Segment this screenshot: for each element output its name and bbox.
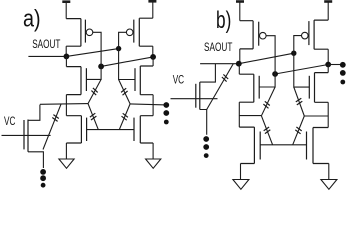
nmos M1b channel + leads <box>239 74 254 102</box>
ground left (a) <box>59 159 74 168</box>
antifuse diagonal VC wire to row line (a) <box>43 104 61 149</box>
VDD symbol left (a) <box>62 0 70 3</box>
break marks on V2 upper diagonal <box>121 88 128 95</box>
pmos P1b gate bar <box>258 22 260 46</box>
wire VDD1b to PMOS P1b <box>239 2 241 21</box>
pmos P2b gate bar <box>308 21 310 45</box>
row line (b) <box>239 115 261 117</box>
svg-text:VC: VC <box>4 114 16 128</box>
nmos M3a gate bar <box>86 118 88 141</box>
break marks on VC antifuse (b) <box>222 74 228 81</box>
break marks on V1 lower diagonal <box>90 113 97 120</box>
node dot3 (P1b gate) <box>272 71 278 77</box>
access nmos Mvb source lead down <box>200 110 207 135</box>
access nmos Mvb gate bar <box>195 84 197 108</box>
antifuse diagonal V2 to M2a gate corner <box>119 80 131 104</box>
node dot3 (P1a gate) <box>98 64 104 70</box>
ground right (b) <box>321 180 337 190</box>
nmos M3b gate bar <box>259 132 261 160</box>
VC wire (b) <box>171 98 218 100</box>
wire M1b gate to column <box>259 72 275 87</box>
wire P2a gate to cross node <box>119 32 127 46</box>
wire right rail to ground (b) <box>328 164 330 180</box>
antifuse diagonal V1b to row2 gate line (b) <box>261 116 272 145</box>
access nmos Mva drain lead up to row line <box>28 105 40 121</box>
node B dot (b) <box>325 62 331 68</box>
nmos M3b (row2 left) channel + leads <box>239 127 254 163</box>
access nmos Mvb drain lead up to SAOUT wire <box>200 64 216 82</box>
row-continuation dots right (a) <box>163 102 169 108</box>
nmos M2b channel + leads <box>315 73 329 103</box>
row line (a) <box>40 103 88 106</box>
wire M1a gate to column <box>86 64 101 79</box>
break marks on V1b upper diagonal <box>263 101 269 108</box>
access nmos Mva source lead down <box>28 152 43 168</box>
wire right rail row1-row2 (a) <box>152 95 154 116</box>
wire P1b drain down to node A (b) <box>239 49 241 64</box>
nmos M4a (row2 right) channel + leads <box>140 116 153 143</box>
VC wire (a) <box>2 134 51 136</box>
nmos M3a (row2 left) channel + leads <box>66 116 81 143</box>
nmos M4b (row2 right) channel + leads <box>313 128 329 164</box>
break marks on V2b upper diagonal <box>296 98 303 105</box>
wire P2b gate to cross node <box>294 36 302 51</box>
row2 gate line (a) <box>87 129 134 131</box>
pmos P1a bubble <box>86 29 93 36</box>
break marks on V1 upper diagonal <box>91 88 97 95</box>
nmos M2a gate bar <box>134 68 136 91</box>
nmos M1b gate bar <box>258 76 260 99</box>
antifuse diagonal V2b to M2b gate corner <box>294 87 305 116</box>
node A dot (b) <box>236 61 242 67</box>
nmos M2a channel + leads <box>140 66 153 95</box>
node dot2 (P2b gate) <box>291 51 296 56</box>
wire cross-couple node A to gate of P2b <box>239 53 294 64</box>
nmos M4a gate bar <box>133 118 135 141</box>
ground right (a) <box>146 159 161 168</box>
wire P1a drain down to node A <box>65 46 67 56</box>
node B line to continuation dots (b) <box>328 64 343 66</box>
wire P2a drain down to node B <box>152 46 154 57</box>
wire cross-couple dot3 to node B <box>101 57 153 67</box>
wire VDD1a to PMOS P1a <box>65 2 67 19</box>
wire P1a gate to node column <box>93 32 101 64</box>
continuation dots right (b) <box>340 62 346 68</box>
VDD symbol right (a) <box>148 0 156 3</box>
svg-text:SAOUT: SAOUT <box>32 39 60 51</box>
wire right rail to ground (a) <box>152 143 154 159</box>
svg-text:SAOUT: SAOUT <box>204 42 232 54</box>
svg-text:b): b) <box>216 7 231 34</box>
pmos P2a gate bar <box>133 20 135 43</box>
nmos M1a channel + leads <box>66 67 81 95</box>
column-continuation dots bottom (b) <box>203 136 209 142</box>
wire node B down to NMOS M2a <box>152 57 154 66</box>
break marks on V1b lower diagonal <box>264 127 271 134</box>
antifuse diagonal V2b to row2 gate line (b) <box>293 116 305 145</box>
pmos P1a gate bar <box>84 20 86 43</box>
pmos P1a channel + leads <box>66 19 81 47</box>
wire VDD2b to PMOS P2b <box>327 2 329 21</box>
wire right rail row1-row2 (b) <box>327 102 329 127</box>
pmos P1b channel + leads <box>240 21 253 49</box>
VDD symbol left (b) <box>236 0 244 3</box>
row2 gate line (b) <box>260 144 306 146</box>
wire node A down to NMOS M1b <box>238 64 240 74</box>
SAOUT wire (a) <box>28 55 66 57</box>
wire left rail row1-row2 (b) <box>238 102 240 127</box>
access nmos Mvb channel <box>199 82 201 109</box>
wire cross-couple node A to gate of P2a <box>66 49 118 57</box>
wire M2a gate to column <box>119 46 135 79</box>
break marks on VC antifuse (a) <box>52 115 59 122</box>
node dot2 (P2a gate) <box>116 46 121 51</box>
node A dot <box>64 54 70 60</box>
antifuse diagonal V1 to M1a gate corner <box>88 79 101 103</box>
nmos M1a gate bar <box>85 68 87 91</box>
wire left rail to ground (a) <box>65 143 67 159</box>
break marks on V2b lower diagonal <box>295 127 301 134</box>
wire node B down to NMOS M2b <box>327 65 329 73</box>
antifuse diagonal V1b to M1b gate corner <box>261 87 275 116</box>
wire P1b gate to node column <box>266 36 275 72</box>
antifuse diagonal V2 to row2 gate line <box>119 104 130 130</box>
wire M2b gate to column <box>294 51 310 87</box>
access nmos Mva channel <box>27 120 29 152</box>
wire left rail row1-row2 (a) <box>65 95 67 116</box>
pmos P2b bubble <box>302 32 309 39</box>
wire P2b drain down to node B (b) <box>327 49 329 64</box>
SAOUT wire (b) <box>200 63 239 65</box>
wire cross-couple dot3 to node B (b) <box>275 65 328 75</box>
node B dot <box>150 54 156 60</box>
wire node A down to NMOS M1a <box>65 56 67 66</box>
pmos P2b channel + leads <box>314 20 328 49</box>
pmos P2a channel + leads <box>139 18 153 46</box>
wire left rail to ground (b) <box>240 164 242 180</box>
break marks on V2 lower diagonal <box>122 113 128 120</box>
pmos P1b bubble <box>260 32 267 39</box>
wire VDD2a to PMOS P2a <box>152 1 154 18</box>
pmos P2a bubble <box>126 29 133 36</box>
svg-text:VC: VC <box>173 72 185 86</box>
svg-text:a): a) <box>23 5 41 32</box>
access nmos Mva gate bar <box>23 120 25 149</box>
nmos M2b gate bar <box>308 76 310 99</box>
ground left (b) <box>233 180 249 190</box>
antifuse diagonal V1 to row2 gate line <box>88 104 98 130</box>
column-continuation dots bottom (a) <box>40 169 46 175</box>
antifuse diagonal VC wire to node A (b) <box>207 64 234 110</box>
VDD symbol right (b) <box>324 0 332 3</box>
nmos M4b gate bar <box>306 132 308 160</box>
